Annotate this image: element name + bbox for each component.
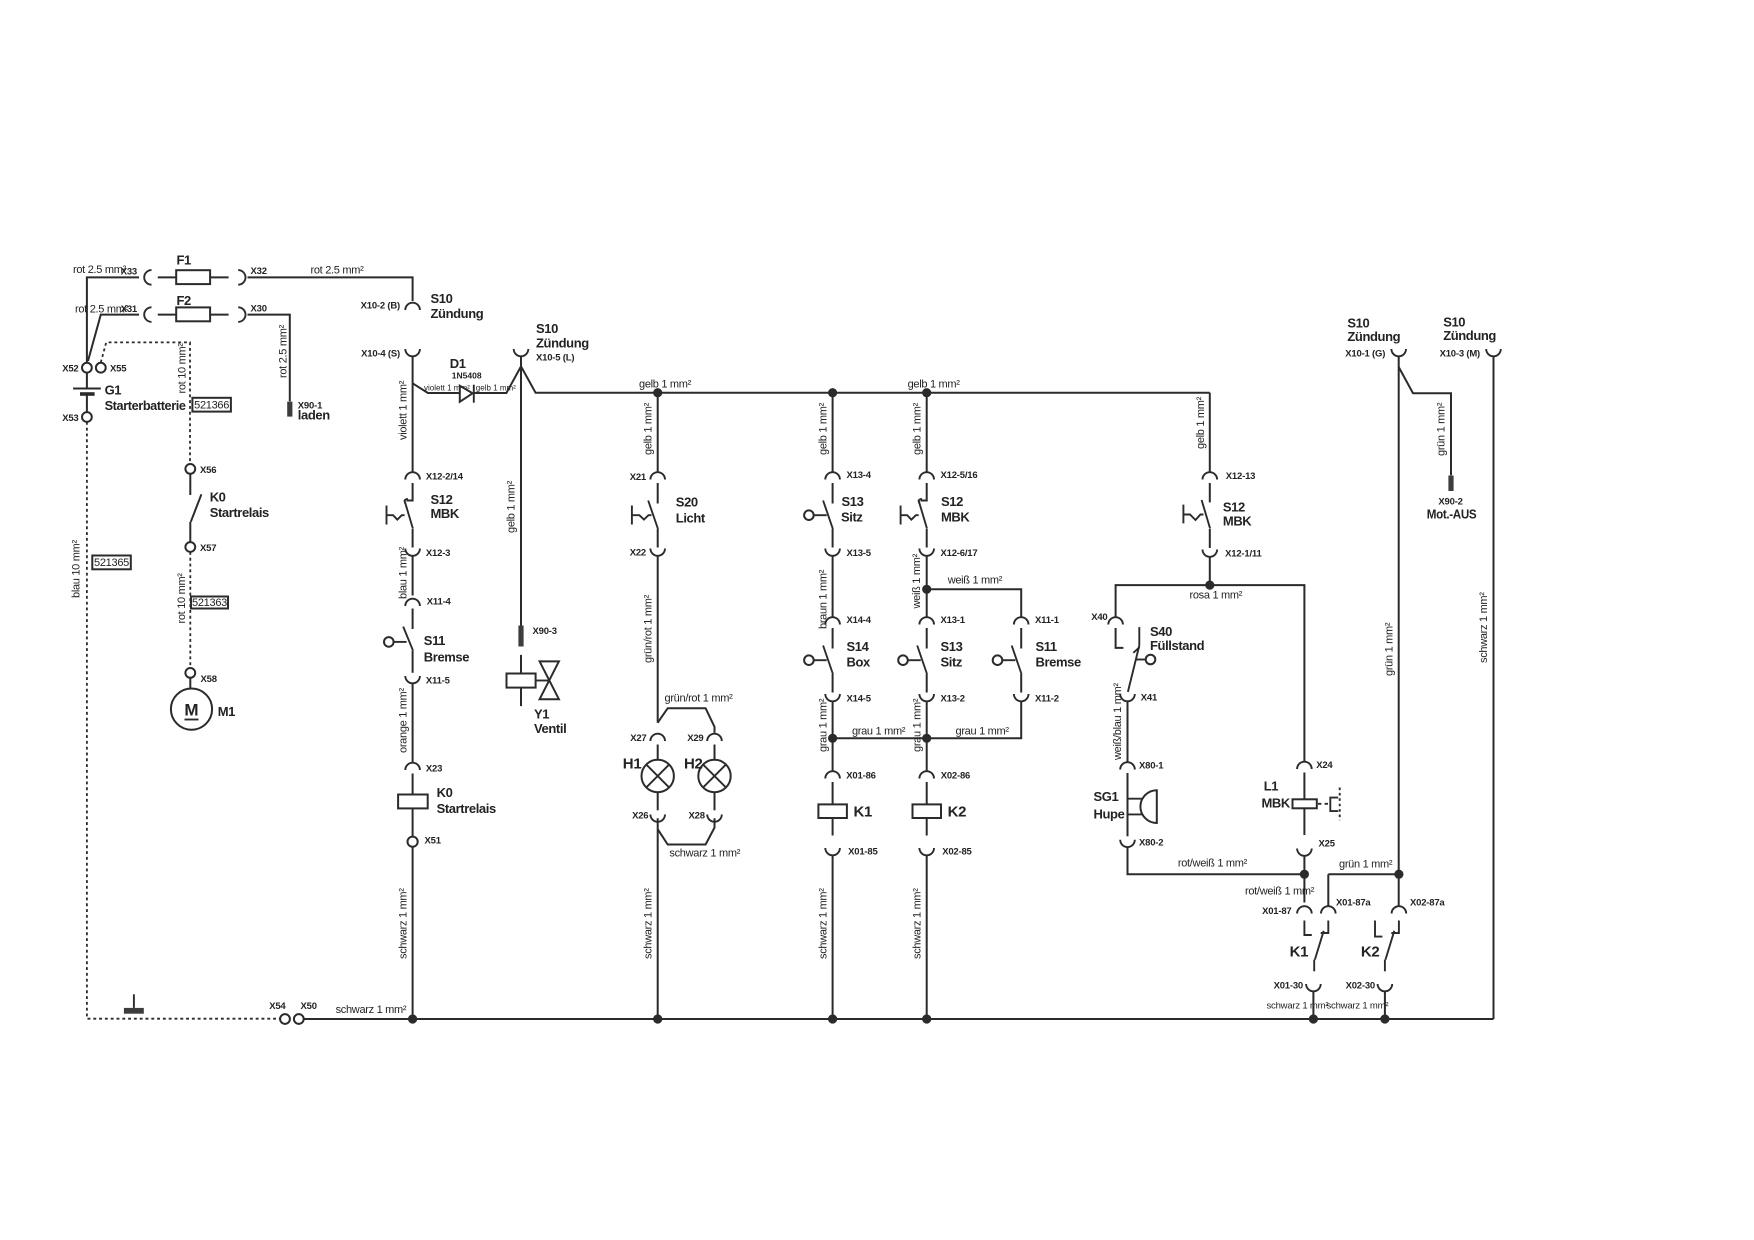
junction bus at K2 column	[922, 1014, 931, 1023]
node X57	[185, 542, 216, 554]
wire schwarz 1 mm2 K1 to bus	[817, 856, 832, 1020]
svg-text:S13: S13	[941, 639, 963, 654]
wire gruen/rot bridge to X29	[658, 693, 733, 733]
svg-text:Startrelais: Startrelais	[437, 801, 496, 816]
SECTION: right side	[1091, 315, 1501, 1020]
wire rot 2.5 mm2 from battery to X33	[73, 264, 139, 363]
svg-text:X24: X24	[1316, 760, 1333, 771]
svg-text:X40: X40	[1091, 612, 1107, 623]
svg-text:M: M	[184, 701, 198, 720]
svg-text:schwarz 1 mm²: schwarz 1 mm²	[669, 848, 740, 860]
svg-text:rot/weiß 1 mm²: rot/weiß 1 mm²	[1245, 886, 1315, 898]
node X12-1/11	[1203, 549, 1263, 560]
svg-text:X90-3: X90-3	[533, 626, 557, 637]
wire gruen/rot 1 mm2 down to lamps	[642, 556, 657, 723]
svg-text:X11-1: X11-1	[1035, 615, 1060, 626]
svg-text:S40: S40	[1150, 624, 1172, 639]
node X01-87	[1262, 906, 1312, 917]
svg-text:X12-13: X12-13	[1226, 471, 1255, 482]
switch S11 Bremse mid	[993, 628, 1081, 693]
svg-text:521363: 521363	[192, 597, 227, 609]
svg-text:X56: X56	[200, 465, 216, 476]
battery G1 Starterbatterie	[73, 373, 186, 413]
switch S12 MBK	[387, 483, 460, 548]
wire braun 1 mm2	[817, 556, 832, 629]
node X24	[1297, 760, 1333, 771]
node X11-5	[405, 676, 450, 687]
wire violett 1 mm2 down to S12	[397, 357, 412, 472]
node X10-2 (B) to S10 Zuendung	[361, 291, 484, 321]
wire gelb down to X13-4	[817, 393, 832, 472]
switch S12 MBK mid	[901, 483, 971, 548]
svg-text:X25: X25	[1319, 839, 1336, 850]
wire schwarz 1 mm2 K2 to bus	[911, 856, 926, 1020]
node X41	[1120, 693, 1158, 704]
svg-text:X33: X33	[121, 267, 137, 278]
svg-text:X10-3 (M): X10-3 (M)	[1440, 349, 1480, 360]
wire schwarz 1 mm2 bottom bus	[304, 1004, 1494, 1019]
svg-text:Bremse: Bremse	[1036, 655, 1081, 670]
svg-text:X12-3: X12-3	[426, 548, 450, 559]
svg-text:X10-5 (L): X10-5 (L)	[536, 353, 574, 364]
svg-text:Licht: Licht	[676, 511, 706, 526]
node X54	[269, 1001, 290, 1024]
svg-text:X10-1 (G): X10-1 (G)	[1345, 349, 1385, 360]
contact K2	[1361, 921, 1399, 972]
svg-text:gelb 1 mm²: gelb 1 mm²	[506, 480, 518, 533]
svg-text:X14-4: X14-4	[847, 615, 872, 626]
node X12-13	[1203, 471, 1256, 482]
node X56	[185, 464, 216, 476]
svg-text:schwarz 1 mm²: schwarz 1 mm²	[397, 888, 409, 959]
wire gelb down to X12-5/16	[911, 393, 926, 472]
svg-text:Mot.-AUS: Mot.-AUS	[1427, 507, 1477, 522]
node X28	[688, 811, 721, 822]
junction bus at X02-30	[1380, 1014, 1389, 1023]
node X14-5	[825, 694, 871, 705]
svg-text:grau 1 mm²: grau 1 mm²	[852, 726, 906, 738]
node X01-30	[1274, 981, 1321, 992]
valve Y1 Ventil	[507, 655, 567, 736]
node X13-5	[825, 548, 871, 559]
SECTION: top-left battery and fuses	[62, 253, 484, 1024]
svg-text:orange 1 mm²: orange 1 mm²	[397, 687, 409, 753]
node X58	[185, 668, 216, 685]
wire weiss down to junction	[911, 553, 927, 609]
terminal X90-1 laden	[287, 401, 330, 423]
svg-text:Ventil: Ventil	[534, 721, 566, 736]
svg-text:X10-2 (B): X10-2 (B)	[361, 301, 400, 312]
svg-text:X57: X57	[200, 543, 216, 554]
wire gruen down from ignition	[1383, 357, 1398, 906]
svg-text:X30: X30	[251, 304, 267, 315]
wire schwarz 1 mm2 lamps to bus	[642, 818, 657, 1019]
svg-text:grün 1 mm²: grün 1 mm²	[1383, 622, 1395, 676]
svg-text:grün 1 mm²: grün 1 mm²	[1436, 402, 1448, 456]
SECTION: left relay column	[171, 464, 269, 730]
svg-text:X02-86: X02-86	[941, 771, 970, 782]
svg-text:X12-1/11: X12-1/11	[1225, 549, 1262, 560]
wire gelb 1 mm2 down to valve	[506, 357, 521, 626]
svg-text:gelb 1 mm²: gelb 1 mm²	[911, 402, 923, 455]
svg-text:Bremse: Bremse	[424, 650, 469, 665]
terminal X90-3	[518, 626, 556, 647]
svg-text:G1: G1	[105, 383, 122, 398]
wire schwarz bridge from X28	[658, 818, 741, 859]
node X10-4 (S) ignition terminal	[361, 349, 420, 360]
svg-text:K2: K2	[948, 804, 967, 821]
svg-text:MBK: MBK	[431, 506, 460, 521]
svg-text:Sitz: Sitz	[941, 655, 963, 670]
svg-text:rosa 1 mm²: rosa 1 mm²	[1190, 590, 1243, 602]
switch S14 Box	[804, 628, 871, 693]
junction on gelb bus at S20 column	[653, 388, 662, 397]
svg-text:gelb 1 mm²: gelb 1 mm²	[1195, 396, 1207, 449]
node X01-86	[825, 771, 875, 782]
svg-text:S11: S11	[1036, 639, 1057, 654]
svg-text:F2: F2	[177, 293, 192, 308]
svg-text:gelb 1 mm²: gelb 1 mm²	[639, 379, 692, 391]
node X22	[630, 548, 665, 559]
node X14-4	[825, 615, 871, 626]
node X01-85	[825, 847, 878, 858]
svg-text:M1: M1	[218, 704, 235, 719]
diode D1 1N5408	[450, 356, 482, 403]
svg-text:X51: X51	[425, 836, 442, 847]
node X11-2	[1014, 694, 1059, 705]
wire weiss down to X13-1	[926, 589, 928, 616]
svg-text:SG1: SG1	[1094, 789, 1119, 804]
label 521363	[191, 597, 228, 610]
svg-text:grau 1 mm²: grau 1 mm²	[911, 698, 923, 752]
node X13-1	[919, 615, 965, 626]
wire weiss 1 mm2 branch to S11	[927, 575, 1022, 618]
wire down to rosa junction	[1209, 557, 1211, 585]
svg-text:S10: S10	[536, 321, 558, 336]
node X11-1	[1014, 615, 1060, 626]
SECTION: middle K1/K2 columns	[804, 393, 1081, 1019]
svg-text:schwarz 1 mm²: schwarz 1 mm²	[911, 888, 923, 959]
fuse F2	[158, 293, 229, 322]
svg-text:X58: X58	[201, 674, 217, 685]
svg-text:X13-4: X13-4	[847, 470, 872, 481]
junction on gelb bus at S13 column	[828, 388, 837, 397]
relay coil K2	[913, 782, 967, 836]
SECTION: bottom bus	[304, 1004, 1494, 1024]
svg-text:X53: X53	[62, 413, 78, 424]
node X12-2/14	[405, 472, 463, 483]
svg-text:gelb 1 mm²: gelb 1 mm²	[908, 379, 961, 391]
svg-text:grün/rot 1 mm²: grün/rot 1 mm²	[665, 693, 734, 705]
svg-text:gelb 1 mm²: gelb 1 mm²	[817, 402, 829, 455]
wire violett branch to diode	[413, 383, 471, 393]
switch S12 MBK right	[1183, 483, 1252, 548]
svg-text:K1: K1	[1290, 944, 1309, 961]
wire grau 1 mm2 cross bus	[833, 702, 1022, 738]
svg-text:S14: S14	[847, 639, 870, 654]
node X02-86	[919, 771, 970, 782]
svg-text:Box: Box	[847, 655, 872, 670]
svg-text:Zündung: Zündung	[1347, 329, 1400, 344]
node X12-6/17	[919, 548, 977, 559]
dashed wire blau 10 mm2 down left side	[70, 422, 279, 1019]
node X13-2	[919, 694, 964, 705]
svg-text:X41: X41	[1141, 693, 1158, 704]
svg-text:X11-2: X11-2	[1035, 694, 1059, 705]
svg-text:X26: X26	[632, 811, 648, 822]
svg-text:S10: S10	[431, 291, 453, 306]
svg-text:schwarz 1 mm²: schwarz 1 mm²	[817, 888, 829, 959]
terminal X90-2 Mot.-AUS	[1427, 476, 1477, 522]
chassis ground	[124, 994, 144, 1013]
svg-text:Startrelais: Startrelais	[210, 505, 269, 520]
node X80-1	[1120, 761, 1164, 772]
contact K0 Startrelais	[190, 474, 269, 542]
svg-text:S11: S11	[424, 633, 445, 648]
svg-text:X23: X23	[426, 764, 442, 775]
svg-text:MBK: MBK	[941, 510, 970, 525]
svg-text:rot 10 mm²: rot 10 mm²	[176, 343, 188, 394]
svg-text:X02-85: X02-85	[942, 847, 972, 858]
wire grau down to junction	[817, 698, 832, 752]
svg-text:rot/weiß 1 mm²: rot/weiß 1 mm²	[1178, 858, 1248, 870]
node X27	[630, 733, 665, 744]
node X12-5/16	[919, 470, 977, 481]
svg-text:X02-30: X02-30	[1346, 981, 1375, 992]
label 521366	[192, 398, 231, 412]
node X80-2	[1120, 838, 1163, 849]
motor M1	[171, 678, 235, 730]
svg-text:X29: X29	[687, 733, 703, 744]
wire to bus from X01-30	[1267, 991, 1329, 1019]
svg-text:Y1: Y1	[534, 707, 549, 722]
svg-text:K0: K0	[210, 490, 226, 505]
wire rosa 1 mm2 bus	[1116, 585, 1305, 762]
node X31	[121, 304, 152, 322]
svg-text:rot 2.5 mm²: rot 2.5 mm²	[73, 264, 127, 276]
svg-text:X10-4 (S): X10-4 (S)	[361, 349, 400, 360]
svg-text:weiß 1 mm²: weiß 1 mm²	[947, 575, 1003, 587]
svg-text:X22: X22	[630, 548, 646, 559]
junction rosa	[1205, 581, 1214, 590]
svg-text:Starterbatterie: Starterbatterie	[105, 398, 186, 413]
wire orange 1 mm2	[397, 684, 412, 763]
svg-text:X55: X55	[110, 364, 127, 375]
svg-text:grau 1 mm²: grau 1 mm²	[956, 726, 1010, 738]
svg-text:MBK: MBK	[1262, 796, 1291, 811]
node X11-4	[405, 597, 451, 608]
wire blau 1 mm2	[397, 546, 412, 599]
svg-text:X01-85: X01-85	[848, 847, 878, 858]
svg-text:Sitz: Sitz	[841, 510, 863, 525]
svg-text:weiß/blau 1 mm²: weiß/blau 1 mm²	[1112, 683, 1124, 761]
node X10-3 (M) ignition	[1440, 315, 1501, 360]
svg-text:Zündung: Zündung	[536, 336, 589, 351]
svg-text:X80-2: X80-2	[1139, 838, 1163, 849]
junction weiss	[922, 585, 931, 594]
svg-text:grau 1 mm²: grau 1 mm²	[817, 698, 829, 752]
node X10-1 (G) ignition	[1345, 316, 1406, 360]
contact K1	[1290, 921, 1329, 972]
svg-text:rot 2.5 mm²: rot 2.5 mm²	[311, 265, 365, 277]
svg-text:gelb 1 mm²: gelb 1 mm²	[642, 402, 654, 455]
svg-text:schwarz 1 mm²: schwarz 1 mm²	[336, 1004, 407, 1016]
wire to bus from X02-30	[1327, 991, 1389, 1019]
svg-text:X12-2/14: X12-2/14	[426, 472, 464, 483]
svg-text:X13-1: X13-1	[941, 615, 966, 626]
svg-text:S20: S20	[676, 495, 698, 510]
relay coil K1	[818, 782, 872, 836]
relay coil K0 Startrelais	[398, 774, 496, 837]
horn SG1 Hupe	[1094, 773, 1157, 836]
svg-text:grün 1 mm²: grün 1 mm²	[1339, 859, 1393, 871]
svg-text:rot 10 mm²: rot 10 mm²	[176, 573, 188, 624]
node X25	[1297, 839, 1336, 856]
node X50	[294, 1001, 317, 1024]
svg-text:X12-5/16: X12-5/16	[941, 470, 978, 481]
svg-text:X52: X52	[62, 364, 78, 375]
junction grau at K1 column	[828, 734, 837, 743]
svg-text:Füllstand: Füllstand	[1150, 638, 1205, 653]
svg-text:weiß 1 mm²: weiß 1 mm²	[911, 553, 923, 609]
lamp H2	[684, 745, 731, 811]
svg-text:violett 1 mm²: violett 1 mm²	[397, 380, 409, 440]
svg-text:X50: X50	[301, 1001, 317, 1012]
wire gelb 1 mm2 main bus	[521, 366, 1210, 392]
wire gruen L to X01-87a	[1328, 859, 1399, 907]
svg-text:laden: laden	[298, 408, 330, 423]
junction grau at K2 column	[922, 734, 931, 743]
svg-text:X54: X54	[269, 1001, 286, 1012]
wire rot 2.5 mm2 down to charge terminal	[248, 315, 290, 402]
wire rot/weiss 1 mm2 to L1 column	[1128, 847, 1305, 874]
lamp H1	[623, 745, 674, 811]
svg-text:X32: X32	[251, 266, 267, 277]
node X55	[96, 363, 127, 375]
svg-text:S12: S12	[431, 492, 453, 507]
svg-text:X11-4: X11-4	[427, 597, 452, 608]
svg-text:schwarz 1 mm²: schwarz 1 mm²	[642, 888, 654, 959]
svg-text:X31: X31	[121, 304, 138, 315]
junction bus at K0 column	[408, 1014, 417, 1023]
dashed wire rot 10 mm2 to motor	[176, 552, 191, 668]
svg-text:S13: S13	[842, 494, 864, 509]
switch S13 Sitz mid	[898, 628, 963, 693]
svg-text:X01-86: X01-86	[846, 771, 875, 782]
junction gruen	[1394, 870, 1403, 879]
node X01-87a	[1321, 898, 1371, 914]
node X02-87a	[1392, 898, 1446, 914]
junction rot/weiss	[1245, 857, 1315, 903]
svg-text:F1: F1	[177, 253, 192, 268]
node X10-5 (L) ignition terminal	[514, 321, 590, 364]
svg-text:blau 1 mm²: blau 1 mm²	[397, 546, 409, 599]
svg-text:X13-5: X13-5	[847, 548, 872, 559]
junction bus at K1 column	[828, 1014, 837, 1023]
node X23	[405, 763, 442, 775]
node X12-3	[405, 548, 450, 559]
svg-text:schwarz 1 mm²: schwarz 1 mm²	[1478, 592, 1490, 663]
svg-text:521366: 521366	[194, 400, 229, 412]
svg-text:Zündung: Zündung	[431, 306, 484, 321]
svg-text:X28: X28	[688, 811, 704, 822]
svg-text:X27: X27	[630, 733, 646, 744]
svg-text:X14-5: X14-5	[847, 694, 872, 705]
node X02-30	[1346, 981, 1393, 992]
switch S11 Bremse	[384, 609, 469, 673]
svg-text:X01-87: X01-87	[1262, 906, 1291, 917]
wire grau down to junction 2	[911, 698, 926, 752]
wire down to X02-86	[926, 738, 928, 770]
node X29	[687, 733, 722, 744]
junction on gelb bus at S12 column	[922, 388, 931, 397]
wire gelb from diode to ignition fan	[474, 366, 521, 393]
svg-text:X80-1: X80-1	[1139, 761, 1164, 772]
svg-text:L1: L1	[1264, 779, 1279, 794]
fuse F1	[158, 253, 229, 285]
svg-text:Hupe: Hupe	[1094, 807, 1125, 822]
node X33	[121, 267, 152, 285]
node X26	[632, 811, 665, 822]
svg-text:gelb 1 mm²: gelb 1 mm²	[476, 383, 516, 392]
label 521365	[92, 556, 131, 570]
svg-text:S12: S12	[1223, 500, 1245, 515]
svg-text:grün/rot 1 mm²: grün/rot 1 mm²	[642, 594, 654, 663]
node X51	[408, 836, 442, 847]
svg-text:X02-87a: X02-87a	[1410, 898, 1445, 909]
wire down to X01-86	[832, 738, 834, 770]
solenoid L1 MBK	[1262, 773, 1340, 836]
node X53	[62, 412, 92, 424]
svg-text:K2: K2	[1361, 944, 1380, 961]
node X02-85	[919, 847, 972, 858]
svg-text:1N5408: 1N5408	[452, 371, 482, 381]
wire rot 2.5 mm2 from battery to X31	[75, 304, 139, 362]
node X32	[238, 266, 267, 285]
svg-text:blau 10 mm²: blau 10 mm²	[70, 540, 82, 598]
svg-text:521365: 521365	[94, 557, 129, 569]
switch S13 Sitz	[804, 483, 864, 548]
svg-text:X21: X21	[630, 472, 647, 483]
svg-text:X12-6/17: X12-6/17	[941, 548, 978, 559]
svg-text:schwarz 1 mm²: schwarz 1 mm²	[1327, 1001, 1389, 1012]
node X30	[238, 304, 267, 322]
wire schwarz right side	[1478, 357, 1493, 1019]
svg-text:X13-2: X13-2	[941, 694, 965, 705]
junction bus at X01-30	[1309, 1014, 1318, 1023]
switch S40 Fuellstand	[1116, 624, 1205, 692]
svg-text:Zündung: Zündung	[1443, 328, 1496, 343]
wire rot 2.5 mm2 from X32 to ignition X10-2	[248, 265, 413, 302]
wire schwarz 1 mm2 to bus	[397, 846, 412, 1019]
svg-text:K1: K1	[854, 804, 873, 821]
svg-text:schwarz 1 mm²: schwarz 1 mm²	[1267, 1001, 1329, 1012]
node X40	[1091, 612, 1123, 625]
svg-text:MBK: MBK	[1223, 514, 1252, 529]
node X13-4	[825, 470, 871, 481]
dashed wire rot 10 mm2 from X55 to relay contact	[101, 342, 190, 463]
svg-text:H1: H1	[623, 756, 642, 773]
wire gelb down to X12-13	[1195, 393, 1210, 472]
svg-text:D1: D1	[450, 356, 466, 371]
node X52	[62, 363, 92, 375]
svg-text:K0: K0	[437, 785, 453, 800]
wire weissblau 1 mm2	[1112, 683, 1127, 762]
svg-text:H2: H2	[684, 756, 703, 773]
junction bus at lamp column	[653, 1014, 662, 1023]
svg-text:X11-5: X11-5	[426, 676, 451, 687]
svg-text:S12: S12	[941, 494, 963, 509]
